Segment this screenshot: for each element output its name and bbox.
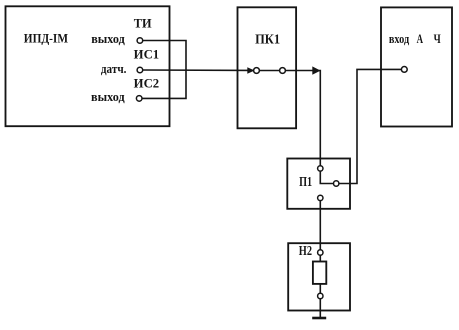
svg-text:П1: П1 <box>299 174 312 189</box>
svg-text:выход: выход <box>91 90 125 104</box>
svg-text:ИПД-IМ: ИПД-IМ <box>24 30 68 45</box>
svg-text:ИС1: ИС1 <box>134 47 159 61</box>
svg-text:Ч: Ч <box>434 32 441 46</box>
svg-text:датч.: датч. <box>101 62 127 76</box>
svg-text:вход: вход <box>389 32 410 46</box>
svg-text:Н2: Н2 <box>299 243 312 258</box>
svg-text:ТИ: ТИ <box>134 17 152 31</box>
svg-text:выход: выход <box>91 32 125 46</box>
svg-text:ИС2: ИС2 <box>134 76 159 90</box>
svg-text:А: А <box>417 32 423 46</box>
svg-text:ПК1: ПК1 <box>255 32 280 47</box>
